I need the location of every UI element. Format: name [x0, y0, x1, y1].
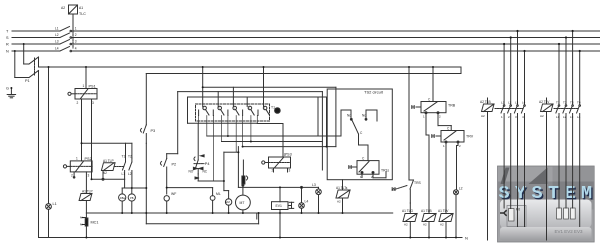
svg-text:4: 4	[75, 47, 77, 51]
lamp ML	[210, 188, 215, 213]
svg-text:2: 2	[508, 115, 510, 119]
wire EV1 feed	[256, 213, 258, 219]
lamp L4	[299, 186, 305, 213]
selector contact 4	[243, 97, 255, 116]
timer TR1s	[349, 161, 387, 178]
svg-text:L1: L1	[501, 101, 505, 105]
svg-text:A1 TLB: A1 TLB	[421, 209, 432, 213]
coil TLV2	[439, 148, 453, 238]
svg-text:2: 2	[439, 115, 441, 119]
svg-text:L3: L3	[312, 183, 316, 187]
fan M3 icon in logo	[500, 209, 514, 222]
coil TLC	[69, 5, 78, 48]
wire P1 from N	[15, 51, 39, 238]
wire loop y224	[145, 213, 147, 224]
svg-text:M+: M+	[80, 216, 84, 220]
svg-text:ML: ML	[216, 192, 221, 196]
contact P2	[160, 154, 166, 194]
selector contact 5	[258, 67, 269, 116]
control loop return	[460, 67, 462, 74]
svg-text:TRB: TRB	[448, 104, 456, 108]
selector contact 2	[213, 92, 224, 116]
contactor TLB contacts	[495, 31, 525, 227]
svg-text:R0: R0	[516, 208, 520, 212]
svg-text:A2: A2	[540, 114, 544, 118]
svg-text:L4: L4	[305, 200, 309, 204]
svg-text:A1 TLP: A1 TLP	[82, 190, 93, 194]
svg-text:C: C	[428, 98, 431, 102]
svg-text:EM: EM	[226, 200, 231, 204]
coil TLG	[403, 203, 417, 238]
pressure switch PS3	[262, 148, 291, 172]
svg-text:TR1s: TR1s	[381, 169, 389, 173]
svg-text:R: R	[6, 43, 9, 47]
switch P1 link	[34, 58, 36, 75]
svg-text:SYSTEM: SYSTEM	[499, 183, 598, 204]
svg-text:1: 1	[443, 144, 445, 148]
svg-text:L2: L2	[508, 101, 512, 105]
svg-text:C: C	[362, 157, 365, 161]
svg-text:A2: A2	[337, 200, 341, 204]
node branch y143	[82, 142, 132, 144]
meter PB	[128, 194, 135, 213]
svg-text:PS1: PS1	[89, 85, 96, 89]
ground G	[7, 88, 15, 98]
wire lamp L1 drop	[48, 67, 50, 204]
svg-text:TRV: TRV	[466, 135, 474, 139]
svg-text:T1: T1	[556, 101, 560, 105]
contactor TLC main contacts on buses	[60, 27, 70, 52]
lamp L2	[454, 146, 459, 238]
coil TLB2	[422, 118, 436, 238]
svg-text:PS2: PS2	[85, 157, 92, 161]
svg-text:G: G	[6, 87, 9, 91]
timer TRV	[432, 131, 465, 149]
svg-text:A1: A1	[79, 6, 83, 10]
svg-text:A1 TLP: A1 TLP	[103, 159, 114, 163]
timer TRB	[412, 67, 452, 131]
svg-text:L2: L2	[459, 187, 463, 191]
svg-text:Nc: Nc	[347, 114, 351, 118]
svg-text:T2: T2	[563, 101, 567, 105]
svg-text:P3: P3	[151, 129, 156, 133]
selector under-box wiring	[188, 122, 258, 124]
svg-text:P2: P2	[172, 163, 177, 167]
svg-text:3: 3	[88, 174, 90, 178]
svg-text:1: 1	[501, 115, 503, 119]
brake coil	[242, 160, 248, 184]
svg-text:1: 1	[75, 27, 77, 31]
svg-text:TRS: TRS	[414, 181, 422, 185]
svg-text:C: C	[360, 131, 363, 135]
contact TLP T1	[123, 158, 126, 170]
meter DBa	[119, 194, 126, 213]
svg-text:2: 2	[77, 101, 79, 105]
capacitor MC1	[82, 213, 88, 238]
svg-text:A2: A2	[440, 223, 444, 227]
svg-text:T1: T1	[122, 154, 126, 158]
svg-text:2: 2	[459, 144, 461, 148]
SYSTEM logo background	[498, 166, 599, 242]
svg-text:A2: A2	[404, 223, 408, 227]
svg-text:No: No	[362, 114, 366, 118]
svg-text:A1 TLG: A1 TLG	[402, 209, 413, 213]
svg-text:A2 TLB: A2 TLB	[480, 100, 491, 104]
wire PS1-2 down	[81, 99, 83, 161]
svg-text:DBa: DBa	[120, 196, 126, 200]
svg-text:T2: T2	[128, 154, 132, 158]
valve EV1	[272, 202, 294, 238]
svg-text:L1: L1	[556, 115, 560, 119]
selector lower terminals	[199, 116, 258, 182]
svg-text:NC: NC	[203, 170, 208, 174]
selector contact 3	[228, 87, 239, 115]
big loop rect left x177.7	[178, 91, 323, 93]
svg-text:N: N	[6, 50, 9, 54]
svg-text:3: 3	[75, 40, 77, 44]
svg-text:3: 3	[515, 115, 517, 119]
contact P3	[140, 74, 146, 144]
wire y97	[188, 96, 327, 98]
selector switch dashed box	[196, 104, 270, 121]
svg-text:MC1: MC1	[91, 221, 99, 225]
svg-text:1: 1	[83, 84, 85, 88]
svg-text:PB: PB	[130, 196, 134, 200]
svg-text:T3: T3	[570, 101, 574, 105]
svg-text:L1: L1	[122, 172, 126, 176]
svg-text:L1: L1	[53, 202, 57, 206]
selector contact 1	[199, 67, 209, 116]
svg-text:T: T	[6, 30, 9, 34]
svg-text:NO: NO	[189, 170, 194, 174]
svg-text:A2: A2	[61, 6, 65, 10]
contactor TLV contacts	[554, 31, 581, 227]
motor MT	[236, 184, 251, 213]
motor EM	[225, 191, 231, 213]
svg-text:C: C	[447, 127, 450, 131]
svg-text:A2: A2	[481, 114, 485, 118]
svg-text:L2: L2	[563, 115, 567, 119]
svg-text:L2: L2	[55, 33, 59, 37]
coil TLTs	[336, 180, 350, 213]
svg-text:1: 1	[76, 157, 78, 161]
svg-text:A1 TLV: A1 TLV	[438, 209, 449, 213]
coil TLV	[541, 104, 554, 240]
wire y87	[203, 86, 336, 88]
svg-text:L3: L3	[55, 40, 59, 44]
contact TLP T2	[129, 158, 132, 188]
node T1	[275, 108, 281, 114]
svg-text:P1: P1	[25, 79, 30, 83]
lamp L1	[46, 204, 52, 238]
bus R	[12, 43, 60, 45]
svg-text:N: N	[465, 236, 468, 241]
coil TLB	[482, 104, 495, 240]
wire bus y213	[86, 212, 392, 214]
svg-text:L4: L4	[55, 47, 59, 51]
pressure switch PS1	[68, 67, 97, 99]
svg-text:EV1: EV1	[276, 204, 283, 208]
coil TLP (upper small)	[101, 163, 115, 171]
svg-text:M-: M-	[80, 223, 84, 227]
link TLP contacts	[114, 166, 124, 168]
changeover P4	[193, 123, 204, 179]
bus S	[12, 37, 60, 39]
control bus	[39, 66, 462, 68]
svg-text:2: 2	[272, 169, 274, 173]
svg-text:4: 4	[522, 115, 524, 119]
svg-text:T4: T4	[577, 101, 581, 105]
svg-text:L1: L1	[55, 27, 59, 31]
coil TLP (lower)	[79, 194, 92, 214]
svg-text:S: S	[6, 36, 9, 40]
svg-text:P4: P4	[205, 162, 210, 166]
svg-text:WF: WF	[171, 192, 176, 196]
svg-text:L4: L4	[522, 101, 526, 105]
svg-text:1: 1	[423, 115, 425, 119]
contact TRS	[392, 67, 414, 203]
svg-text:L2: L2	[128, 172, 132, 176]
changeover contact TS2	[341, 110, 377, 161]
svg-text:2: 2	[71, 174, 73, 178]
svg-text:TS2 circuit: TS2 circuit	[364, 90, 384, 95]
svg-text:A1 TLTs: A1 TLTs	[336, 186, 348, 190]
wire PS1-3 down	[91, 99, 93, 179]
pressure switch PS2	[63, 161, 92, 172]
wire P1 from R	[24, 44, 39, 67]
svg-text:MT: MT	[240, 201, 245, 205]
svg-text:L3: L3	[515, 101, 519, 105]
lamp L3	[316, 187, 322, 213]
svg-text:2: 2	[75, 33, 77, 37]
svg-text:T1: T1	[271, 106, 275, 110]
svg-text:TLC: TLC	[79, 12, 86, 16]
svg-text:A2 TLV: A2 TLV	[539, 100, 550, 104]
bus N	[12, 50, 60, 52]
bus T	[12, 30, 60, 32]
svg-text:L4: L4	[577, 115, 581, 119]
svg-text:A2: A2	[423, 223, 427, 227]
contact terminal circles	[70, 30, 72, 52]
svg-text:3: 3	[92, 101, 94, 105]
svg-text:A2: A2	[103, 171, 107, 175]
svg-text:L3: L3	[570, 115, 574, 119]
svg-text:3: 3	[289, 169, 291, 173]
bottom bus N	[39, 237, 463, 239]
pushbutton WF	[164, 196, 169, 213]
TS2 circuit box	[327, 89, 392, 180]
svg-text:PS3: PS3	[285, 153, 292, 157]
svg-text:EV1 EV2 EV3: EV1 EV2 EV3	[555, 229, 584, 234]
